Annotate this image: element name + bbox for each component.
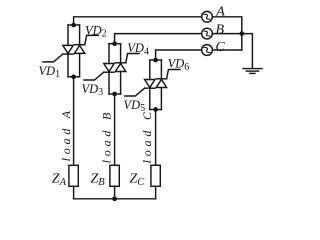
wire pair3 bottom bar	[150, 109, 162, 111]
node pair3 bottom dot	[153, 107, 158, 112]
svg-text:ZC: ZC	[130, 172, 146, 188]
wire neutral to ground	[242, 34, 253, 69]
wire phase A	[74, 17, 202, 25]
ground	[243, 69, 262, 74]
node neutral junction dot	[239, 31, 244, 36]
wire load A	[73, 77, 75, 166]
impedance Z_C box	[151, 165, 160, 186]
wire pair2 bottom bar	[109, 93, 121, 95]
node pair1 top dot	[71, 23, 76, 28]
thyristor VD6	[156, 60, 180, 110]
node pair2 bottom dot	[112, 92, 117, 97]
thyristor VD1	[43, 25, 73, 77]
wire source B to right bus	[212, 33, 241, 35]
svg-text:VD6: VD6	[168, 57, 190, 73]
wire pair2 top bar	[109, 43, 121, 45]
svg-text:load A: load A	[59, 107, 73, 161]
wire phase C	[156, 50, 202, 60]
svg-text:VD4: VD4	[127, 41, 149, 57]
wire source A to right bus	[212, 17, 241, 50]
wire load C	[155, 110, 157, 166]
wire pair1 bottom bar	[68, 76, 80, 78]
impedance Z_B box	[110, 165, 119, 186]
wire Z_A to bus	[73, 186, 75, 199]
node bus junction dot	[112, 196, 117, 201]
node pair1 bottom dot	[71, 74, 76, 79]
svg-text:A: A	[215, 4, 225, 19]
svg-text:B: B	[216, 23, 225, 38]
svg-text:load B: load B	[99, 109, 113, 163]
impedance Z_A box	[69, 165, 78, 186]
thyristor VD4	[115, 44, 139, 94]
AC source C	[202, 45, 213, 56]
node pair3 top dot	[153, 58, 158, 63]
wire phase B	[115, 34, 202, 44]
svg-text:VD1: VD1	[39, 64, 61, 80]
wire source C to right bus	[212, 49, 241, 51]
AC source A	[202, 11, 213, 22]
svg-text:load C: load C	[140, 108, 154, 163]
AC source B	[202, 28, 213, 39]
wire Z_C to bus	[155, 186, 157, 199]
wire bottom neutral bus	[74, 198, 156, 200]
thyristor VD3	[84, 44, 114, 94]
node pair2 top dot	[112, 41, 117, 46]
wire pair1 top bar	[68, 24, 80, 26]
wire Z_B to bus	[114, 186, 116, 199]
thyristor VD2	[74, 25, 98, 77]
svg-text:ZB: ZB	[91, 172, 106, 188]
svg-text:C: C	[216, 40, 226, 55]
svg-text:ZA: ZA	[52, 172, 67, 188]
svg-text:VD2: VD2	[85, 23, 107, 39]
wire pair3 top bar	[150, 59, 162, 61]
wire load B	[114, 94, 116, 165]
svg-text:VD3: VD3	[82, 82, 104, 98]
thyristor VD5	[125, 60, 155, 110]
